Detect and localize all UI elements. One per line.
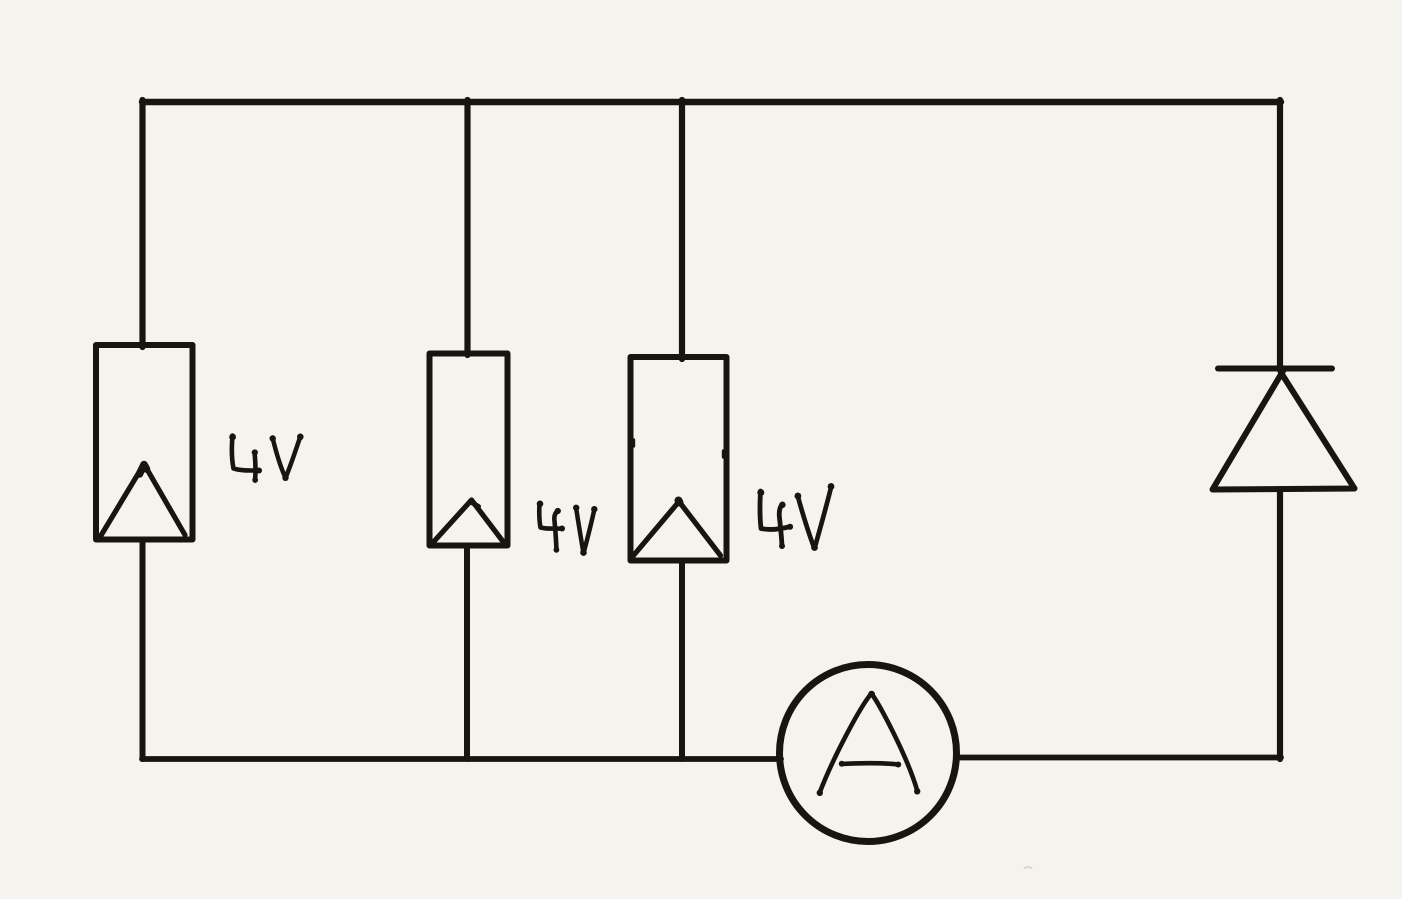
cell B1 body [96, 345, 193, 540]
ammeter letter A [820, 694, 918, 794]
wire from top rail to cell B2 [464, 100, 470, 355]
diode D1 cathode bar [1218, 366, 1332, 372]
diode D1 junction knot [1277, 366, 1286, 375]
diode D1 triangle [1213, 374, 1355, 490]
ink blobs on ammeter A [817, 691, 921, 796]
wire bottom rail left of ammeter [142, 756, 781, 762]
label 4V for B3 [760, 486, 831, 549]
wire left rail upper [139, 100, 145, 347]
ink blobs on label B3 [757, 483, 834, 551]
wire from top rail to cell B3 [679, 100, 685, 359]
cell B1 arrow [101, 464, 185, 536]
ink blobs on label B1 [229, 434, 303, 483]
wire bottom rail right of ammeter [956, 755, 1281, 761]
cell B2 body [430, 354, 508, 546]
wire right rail lower [1277, 489, 1283, 759]
label 4V for B2 [539, 503, 594, 554]
cell B3 edge ticks [632, 440, 635, 446]
smudge mark [1025, 867, 1032, 868]
cell B3 arrow [634, 502, 721, 556]
cell B2 arrow [433, 500, 503, 543]
wire below cell B3 [679, 561, 685, 759]
label 4V for B1 [232, 436, 301, 481]
wire top rail [142, 99, 1281, 105]
wire below cell B1 [140, 541, 146, 759]
cell B3 body [631, 357, 727, 561]
wire right rail upper [1277, 100, 1283, 370]
ammeter M1 circle [780, 665, 957, 842]
wire below cell B2 [464, 546, 470, 759]
ink blobs on label B2 [537, 501, 598, 556]
